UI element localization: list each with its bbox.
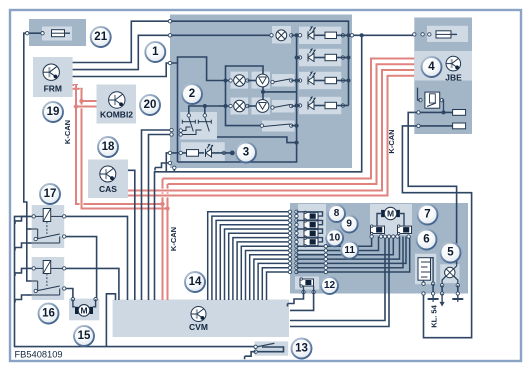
LED D5 [205, 149, 207, 157]
callout 3 [236, 143, 256, 163]
wire LED row1 mid [314, 34, 325, 36]
junction motor link [261, 90, 265, 94]
wire block top rail [170, 21, 349, 105]
ground relay K2 [15, 268, 26, 273]
wire JBE branch to CVM [155, 35, 362, 300]
wire switch pair feed 2 [204, 106, 206, 115]
wire roof switch 2 to CVM [149, 135, 171, 301]
JBE icon [446, 56, 461, 71]
wire ground rail to CVM hook [106, 294, 115, 347]
svg-text:20: 20 [144, 99, 157, 111]
wire JBE to microswitch loop [402, 126, 471, 338]
svg-text:3: 3 [243, 147, 249, 159]
wire row1 to LED bus [291, 34, 300, 36]
plug 12 sub-box [295, 277, 319, 290]
wire flap A out [291, 80, 296, 82]
resistor R2 [325, 54, 337, 60]
wire FRM-3 to block [73, 63, 170, 77]
LED row 1 sub-box [299, 27, 341, 44]
K-CAN pair to CVM 2 [167, 209, 169, 301]
LED row 3 sub-box [299, 72, 341, 89]
wire block to JBE fuse [349, 34, 415, 36]
wire motor link to bus [263, 91, 297, 93]
callout 7 [418, 205, 438, 225]
svg-text:16: 16 [42, 308, 55, 320]
callout 18 [98, 137, 118, 157]
wire bus stub row4 [297, 105, 300, 107]
lamp flap B [234, 100, 246, 112]
wire flap row A [226, 80, 231, 82]
svg-text:11: 11 [344, 245, 355, 256]
control unit CVM body [113, 300, 289, 338]
wire motor pin down-left [290, 237, 385, 321]
svg-text:21: 21 [94, 31, 107, 43]
callout 11 [341, 242, 358, 259]
svg-text:13: 13 [295, 343, 308, 355]
lamp flap A [234, 75, 246, 87]
switch pair sub-box [180, 112, 217, 140]
connectors switch wires [170, 128, 173, 131]
fuse JBE [436, 31, 451, 38]
resistor JBE R1 [453, 110, 466, 116]
FRM icon [43, 64, 59, 80]
junction warning row [230, 151, 235, 156]
LED D2 row2 [307, 54, 309, 62]
relay K2 body [32, 257, 64, 300]
svg-text:19: 19 [47, 106, 60, 118]
wire lamp bus down [226, 81, 262, 126]
ground relay K1 lower [15, 243, 26, 248]
resistor R3 [325, 77, 337, 83]
K-CAN bus FRM branch B stub [73, 88, 83, 90]
ground switch 13 [245, 352, 256, 357]
svg-text:5: 5 [447, 247, 454, 259]
relay K1 internals [43, 209, 51, 222]
wire bus stub row2 [297, 57, 300, 59]
wire relay K1 to motor 15 [64, 237, 96, 300]
junction switch pair [203, 104, 207, 108]
motor 15 body [69, 299, 99, 321]
ground central block [155, 163, 166, 168]
callout 15 [74, 326, 94, 346]
relay K2 internals [43, 261, 51, 274]
wire relay K2 ground stub [26, 267, 32, 269]
LED bus junction dots [295, 33, 299, 37]
wire switch pair to bus [217, 137, 297, 143]
fuse F21 [52, 30, 65, 37]
callout 17 [40, 184, 60, 204]
connectors block edge [168, 20, 171, 23]
fuse box 21 body [29, 19, 86, 46]
resistor-LED sub-box [181, 142, 225, 161]
junction JBE branch [360, 33, 364, 37]
wire LED row1 right [337, 34, 349, 36]
wire relay K1 lower ground stub [26, 242, 32, 244]
svg-text:2: 2 [189, 88, 195, 100]
svg-text:1: 1 [152, 46, 159, 58]
switch flap B [274, 105, 291, 108]
svg-text:M: M [387, 209, 394, 219]
wire JBE lower 2 [414, 125, 452, 127]
terminal KL54 arrow [441, 294, 443, 304]
connectors lamp bottom [440, 292, 443, 295]
resistor JBE R2 [453, 123, 466, 129]
harness connectors [288, 210, 291, 213]
svg-text:9: 9 [346, 219, 352, 230]
callout 2 [182, 84, 202, 104]
svg-text:K-CAN: K-CAN [63, 120, 72, 144]
relay K1 body [32, 205, 64, 248]
wire LED row4 mid [314, 105, 325, 107]
callout 12 [321, 277, 338, 294]
wire switch pair feed [189, 106, 218, 115]
wires harness to drive motor [297, 237, 372, 247]
wire warning row mid [199, 152, 205, 154]
lamp row1 sub-box [272, 26, 291, 44]
control unit FRM body [33, 57, 73, 97]
resistor R1 [325, 32, 337, 38]
wire LED row2 mid [314, 57, 325, 59]
svg-text:6: 6 [423, 234, 429, 246]
CVM icon [191, 307, 206, 322]
wire harness fan to CVM [208, 212, 290, 300]
wire relay K2 lower ground stub [26, 294, 32, 296]
svg-text:M: M [80, 306, 87, 316]
wire relay K1 pin to main ground rail [15, 216, 256, 346]
svg-text:CAS: CAS [99, 184, 117, 194]
wire input C down branch [177, 63, 179, 162]
svg-text:14: 14 [189, 276, 202, 288]
wire relay K2 to motor 15 [64, 289, 73, 300]
LED D4 row4 [307, 102, 309, 110]
svg-text:15: 15 [78, 330, 91, 342]
K-CAN stub to KOMBI2 A [82, 100, 97, 102]
control unit JBE body [414, 18, 472, 135]
svg-text:KL. 54: KL. 54 [430, 304, 439, 327]
switch flap A [274, 79, 291, 82]
K-CAN bus FRM branch B [82, 89, 168, 209]
connector block bottom [173, 166, 176, 169]
callout 9 [341, 216, 358, 233]
callout 4 [422, 57, 442, 77]
junction flap bus dots [224, 79, 228, 83]
control unit KOMBI2 body [97, 85, 137, 124]
roof drive motor sub-box [370, 204, 412, 235]
callout 6 [417, 230, 437, 250]
wire JBE lower 1 [414, 111, 452, 113]
lamp E1 row1 [276, 30, 287, 41]
wire flap A mid [248, 80, 257, 82]
switch roof bottom [264, 124, 291, 127]
wire bottom switch out [291, 125, 296, 127]
callout 13 [292, 339, 312, 359]
switch 13 body [255, 341, 289, 355]
KOMBI2 icon [109, 92, 125, 108]
microswitch unit 6 [418, 258, 431, 281]
callout 21 [91, 27, 111, 47]
callout 10 [326, 229, 343, 246]
resistor R5 [187, 150, 199, 157]
svg-text:4: 4 [428, 61, 435, 73]
svg-text:12: 12 [324, 280, 336, 291]
wire roof switch 1 to CVM [142, 130, 171, 300]
K-CAN bus FRM branch A [76, 85, 163, 204]
callout 1 [145, 42, 165, 62]
wire fuse21 junction relay K1 [27, 228, 32, 230]
roof drive motor M7 [381, 210, 384, 217]
svg-text:10: 10 [329, 233, 341, 244]
wire fuse21 to relays [24, 33, 42, 281]
wire motor feed branch [226, 66, 264, 81]
wire JBE to lamp 5 [408, 112, 456, 264]
K-CAN CAS line2 stub [128, 195, 133, 197]
wire bus stub row3 [297, 80, 300, 82]
microswitch unit sub-box [415, 254, 436, 285]
connector plugs 8-11 [304, 212, 318, 219]
drive motor connectors [370, 235, 373, 238]
wire lamp feed row1 [170, 34, 272, 36]
wire LED row3 right [337, 80, 349, 82]
callout 5 [441, 243, 461, 263]
wire warning row feed [166, 153, 186, 172]
svg-text:FB5408109: FB5408109 [15, 350, 63, 360]
LED D1 row1 [307, 31, 309, 39]
wire LED row3 mid [314, 80, 325, 82]
svg-text:18: 18 [102, 141, 115, 153]
LED row 4 sub-box [299, 97, 341, 114]
wire microswitch gnd [432, 284, 434, 294]
wire CAS to CVM [128, 170, 135, 300]
K-CAN CAS line1 stub [128, 190, 133, 192]
K-CAN pair to CVM [162, 204, 164, 300]
wire block input C [170, 57, 226, 81]
switch pair contacts [187, 114, 190, 117]
svg-text:8: 8 [334, 208, 340, 219]
central switch block body [170, 15, 352, 169]
motor flap B [256, 100, 269, 113]
svg-text:17: 17 [44, 188, 57, 200]
callout 16 [39, 304, 59, 324]
wire FRM-1 to block [73, 21, 170, 62]
connector plug 12 [300, 279, 314, 286]
CAS icon [100, 166, 116, 182]
wire motor pin down-right [290, 237, 389, 327]
ground microswitch [432, 296, 434, 300]
svg-text:JBE: JBE [445, 73, 462, 83]
wire LED row4 right [337, 105, 349, 107]
wire LED row2 right [337, 57, 349, 59]
svg-text:KOMBI2: KOMBI2 [100, 110, 133, 120]
motor M15 [75, 307, 78, 314]
wire lamp pin right down [457, 285, 459, 293]
ground lamp 5 [457, 296, 459, 300]
wire flap B mid [248, 105, 257, 107]
K-CAN CAS line1 to JBE [131, 70, 414, 191]
wire LED left bus [178, 35, 297, 162]
wire plug12 to CVM [290, 292, 314, 310]
lamp E5 [445, 267, 455, 277]
ground relay K1 [15, 216, 26, 221]
callout 20 [140, 95, 160, 115]
switch S13 [258, 343, 275, 347]
svg-text:K-CAN: K-CAN [387, 129, 396, 153]
K-CAN line2 to JBE [168, 64, 415, 184]
roof motor unit sub-boxes [231, 72, 249, 89]
ground plug 12 [288, 299, 299, 304]
lamp 5 sub-box [440, 264, 459, 283]
connectors microswitch bottom [422, 292, 425, 295]
wire warning row out [212, 152, 233, 154]
ground relay K2 lower [15, 295, 26, 300]
svg-text:K-CAN: K-CAN [169, 227, 178, 251]
callout 8 [328, 205, 345, 222]
LED row 2 sub-box [299, 49, 341, 66]
wire flap B out [291, 105, 296, 107]
motor flap A [256, 74, 269, 87]
switch 13 loop [256, 347, 284, 352]
resistor R4 [325, 102, 337, 108]
LED D3 row3 [307, 77, 309, 85]
wire flap row B [218, 105, 231, 107]
svg-text:CVM: CVM [189, 322, 208, 332]
svg-text:FRM: FRM [44, 84, 62, 94]
control unit CAS body [88, 160, 128, 199]
wire motorA-motorB link [262, 86, 264, 101]
K-CAN junction dots [79, 99, 83, 103]
wire lamp pins down [441, 285, 443, 293]
wire relay K2 to CVM [64, 268, 119, 300]
wire block bottom stub [173, 167, 175, 172]
K-CAN line1 to JBE [163, 59, 415, 179]
svg-text:7: 7 [424, 209, 430, 221]
callout 14 [185, 272, 205, 292]
K-CAN stub to KOMBI2 B [76, 105, 97, 109]
wire block ground stub [166, 162, 170, 164]
wire FRM-2 to block [73, 35, 170, 69]
K-CAN CAS line2 to JBE [131, 76, 414, 196]
connector block ground [168, 161, 171, 164]
wire plug12 ground [299, 292, 304, 299]
bottom right unit body [290, 203, 468, 294]
wire relay K1 to CVM [64, 216, 127, 300]
connector column sub-box [298, 204, 326, 253]
callout 19 [43, 102, 63, 122]
K-CAN bus FRM branch A stub [73, 84, 78, 86]
JBE relay K [425, 92, 440, 108]
